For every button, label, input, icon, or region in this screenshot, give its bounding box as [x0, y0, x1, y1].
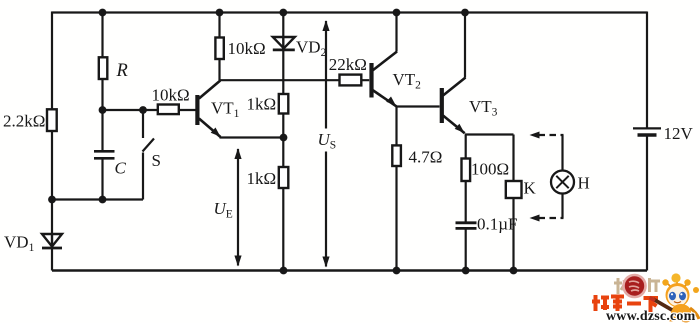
resistor R box: [99, 57, 108, 79]
capacitor C plates: [94, 151, 115, 158]
svg-text:10kΩ: 10kΩ: [152, 86, 190, 105]
wire C bottom to node row: [101, 159, 103, 200]
resistor 2.2k box: [47, 109, 57, 131]
watermark mascot: [650, 273, 700, 322]
transistor VT2: [369, 52, 397, 107]
svg-text:4.7Ω: 4.7Ω: [409, 148, 443, 167]
wire base row y=110: [103, 109, 197, 111]
wire VT3 collector up: [464, 13, 466, 78]
resistor 4.7 box: [392, 145, 401, 166]
resistor 22k box: [340, 75, 362, 86]
svg-text:100Ω: 100Ω: [471, 160, 509, 179]
svg-text:UE: UE: [214, 199, 233, 221]
wire 100ohm / cap branch: [465, 135, 467, 222]
svg-text:VD1: VD1: [4, 233, 35, 255]
svg-text:12V: 12V: [664, 124, 694, 143]
wire collector rail y=80.2: [220, 79, 370, 81]
svg-text:C: C: [115, 159, 127, 178]
svg-text:VD2: VD2: [296, 38, 327, 60]
watermark logo bottom right: [592, 273, 699, 323]
svg-text:1kΩ: 1kΩ: [247, 169, 277, 188]
svg-text:2.2kΩ: 2.2kΩ: [3, 112, 45, 131]
relay coil K box: [506, 181, 522, 198]
battery 12V plates: [633, 128, 661, 135]
svg-text:H: H: [578, 174, 590, 193]
dashed contact arrow lower: [530, 215, 564, 222]
wire top rail: [52, 11, 648, 13]
wire VT2 emitter row to VT3 base: [397, 105, 440, 107]
svg-text:1kΩ: 1kΩ: [247, 95, 277, 114]
svg-text:K: K: [524, 179, 537, 198]
wire VT2 collector up: [395, 13, 397, 52]
wire relay K branch: [512, 135, 514, 271]
svg-text:0.1µF: 0.1µF: [477, 215, 518, 234]
resistor 10k vertical box: [215, 38, 223, 60]
wire bottom rail (ground): [52, 269, 647, 272]
svg-text:VT1: VT1: [211, 99, 240, 121]
wire R/C branch vertical: [101, 13, 103, 151]
wire left vertical: [51, 12, 53, 271]
resistor 1k upper box: [279, 94, 289, 114]
watermark text weikuyixia: [592, 295, 658, 312]
resistor 100 box: [462, 159, 471, 182]
watermark char pian: [650, 278, 661, 292]
wire right vertical (battery branch): [646, 12, 648, 128]
diode VD1: [42, 234, 62, 248]
svg-text:S: S: [152, 151, 161, 170]
svg-text:US: US: [318, 130, 337, 152]
wire right vertical below battery: [646, 136, 648, 271]
transistor VT3: [440, 78, 466, 134]
wire VD2 / 1k branch vertical: [282, 13, 284, 271]
svg-text:VT3: VT3: [469, 97, 498, 119]
wire VT3 emitter row: [465, 133, 514, 135]
svg-text:R: R: [116, 61, 128, 81]
wire below cap: [465, 229, 467, 270]
resistor 1k lower box: [279, 167, 289, 188]
wire VT1 emitter row: [220, 136, 284, 138]
arrow UE: [234, 148, 241, 267]
svg-text:www.dzsc.com: www.dzsc.com: [606, 309, 696, 323]
wire 10k vertical branch: [218, 13, 220, 81]
resistor 10k horizontal box: [158, 105, 179, 115]
capacitor 0.1uF plates: [456, 223, 477, 229]
svg-text:10kΩ: 10kΩ: [228, 39, 266, 58]
watermark char zhao: [614, 278, 627, 294]
switch S: [143, 110, 155, 200]
diode VD2: [273, 37, 295, 50]
wire VT2 emitter down to 4.7: [395, 106, 397, 271]
lamp H: [551, 135, 574, 218]
arrow US: [322, 20, 329, 268]
wire node row y=199.5: [52, 198, 143, 200]
svg-text:VT2: VT2: [393, 70, 422, 92]
dashed contact arrow upper: [530, 132, 564, 139]
svg-text:22kΩ: 22kΩ: [329, 55, 367, 74]
watermark red circle chip: [624, 275, 646, 297]
transistor VT1: [195, 81, 220, 138]
